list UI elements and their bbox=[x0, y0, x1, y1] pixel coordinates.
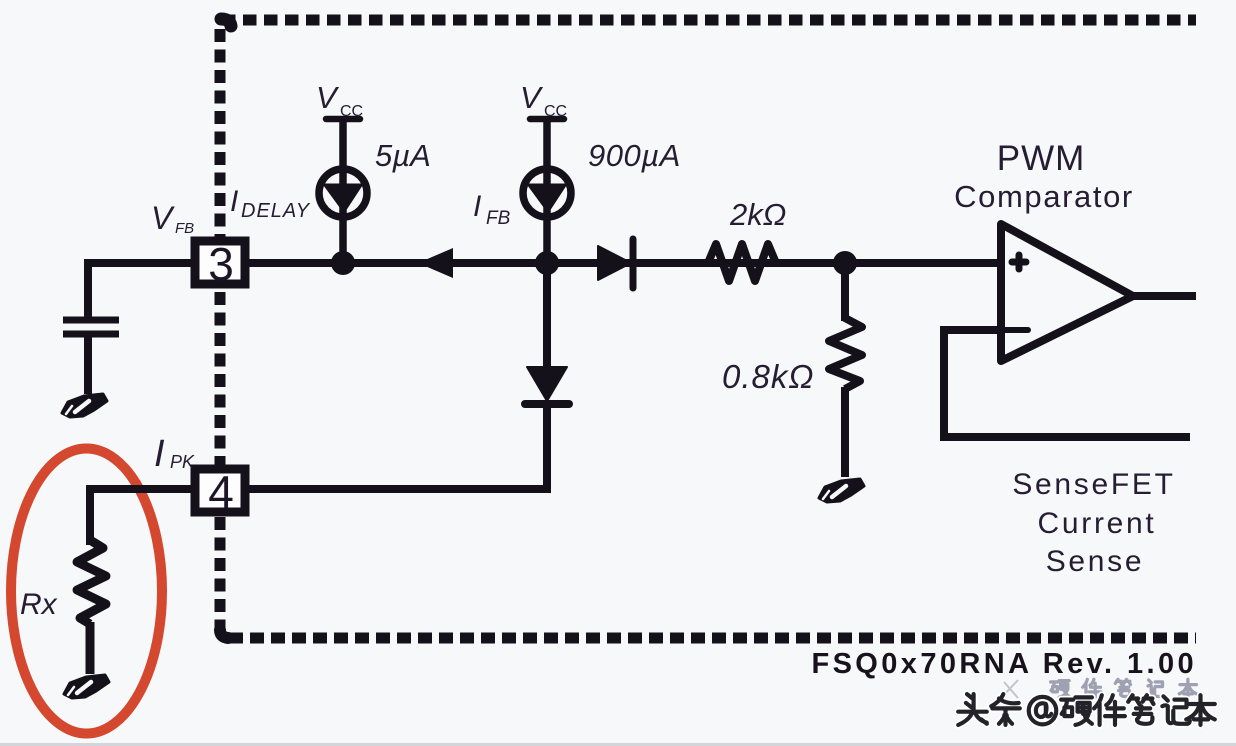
wire: pin3 left lead and down to capacitor bbox=[88, 259, 191, 318]
label I_FB bbox=[473, 190, 511, 229]
svg-text:I: I bbox=[154, 433, 165, 475]
svg-text:SenseFET: SenseFET bbox=[1012, 468, 1175, 501]
junction node at 2k/0.8k bbox=[833, 251, 857, 275]
svg-text:FB: FB bbox=[486, 208, 511, 229]
svg-text:PWM: PWM bbox=[997, 139, 1086, 178]
svg-text:FSQ0x70RNA Rev. 1.00: FSQ0x70RNA Rev. 1.00 bbox=[811, 648, 1197, 680]
svg-text:Comparator: Comparator bbox=[954, 179, 1134, 214]
bottom edge streak bbox=[0, 743, 1236, 746]
svg-text:PK: PK bbox=[170, 452, 195, 472]
svg-text:CC: CC bbox=[544, 103, 567, 120]
svg-text:Rx: Rx bbox=[20, 588, 58, 621]
svg-text:FB: FB bbox=[175, 220, 194, 237]
svg-text:V: V bbox=[151, 200, 175, 236]
label V_FB bbox=[151, 200, 194, 237]
diode D2 (down) to pin4 net bbox=[525, 367, 569, 404]
resistor 0.8k bbox=[829, 315, 862, 389]
label Vcc 1 bbox=[316, 80, 363, 120]
svg-text:Current: Current bbox=[1038, 507, 1157, 540]
label SenseFET Current Sense bbox=[1012, 468, 1175, 578]
current source I_FB 900uA bbox=[523, 169, 571, 217]
junction node at I_DELAY bbox=[331, 251, 355, 275]
watermark headline 头条 @硬件笔记本 dark strokes bbox=[958, 694, 1215, 725]
label Vcc 2 bbox=[520, 80, 567, 120]
wire: pin4 left lead and down to Rx bbox=[90, 485, 195, 545]
arrow on rail pointing left bbox=[418, 248, 453, 278]
current source I_DELAY 5uA bbox=[319, 169, 367, 217]
junction node at I_FB bbox=[535, 251, 559, 275]
wire: junction down to 0.8k bbox=[841, 263, 849, 321]
IC boundary dashed left edge bbox=[215, 29, 226, 632]
svg-text:0.8kΩ: 0.8kΩ bbox=[722, 358, 814, 395]
PWM comparator triangle U1 bbox=[1001, 224, 1133, 361]
svg-text:4: 4 bbox=[208, 466, 234, 518]
svg-text:5µA: 5µA bbox=[375, 138, 431, 173]
label I_PK bbox=[154, 433, 195, 475]
Vcc symbol for I_DELAY bbox=[326, 119, 360, 259]
wire: Rx down to ground bbox=[86, 622, 95, 674]
svg-text:900µA: 900µA bbox=[588, 138, 681, 173]
watermark ghost 硬件笔记本 bbox=[1002, 679, 1196, 698]
svg-text:DELAY: DELAY bbox=[241, 200, 311, 222]
ground (Rx) bbox=[64, 675, 109, 698]
red highlight ellipse around Rx bbox=[11, 449, 162, 734]
wire: comparator minus input feedback bbox=[944, 330, 1190, 437]
label I_DELAY bbox=[230, 185, 311, 222]
IC boundary dashed bottom edge bbox=[229, 633, 1196, 644]
pin 3 box bbox=[195, 238, 245, 290]
resistor 2k bbox=[700, 244, 784, 281]
IC boundary top-left corner bbox=[221, 19, 231, 26]
wire: 0.8k down to ground bbox=[841, 387, 849, 477]
IC boundary dashed top edge bbox=[222, 15, 1196, 26]
svg-text:2kΩ: 2kΩ bbox=[729, 197, 786, 232]
wire: I_FB junction down to diode bbox=[543, 263, 551, 368]
Vcc symbol for I_FB bbox=[530, 119, 564, 259]
svg-text:V: V bbox=[316, 80, 340, 115]
ground (0.8k) bbox=[819, 479, 864, 502]
resistor Rx bbox=[77, 540, 106, 624]
svg-text:CC: CC bbox=[340, 103, 363, 120]
svg-text:3: 3 bbox=[208, 238, 234, 290]
svg-text:I: I bbox=[230, 185, 238, 218]
wire: pin3 to comparator plus input (feedback rail) bbox=[245, 259, 1001, 267]
svg-text:V: V bbox=[520, 80, 544, 115]
wire: comparator output bbox=[1131, 292, 1196, 300]
capacitor bbox=[63, 320, 119, 394]
svg-text:Sense: Sense bbox=[1046, 545, 1145, 578]
watermark headline 头条 @硬件笔记本 white halo bbox=[958, 694, 1215, 725]
series diode D1 on rail bbox=[598, 239, 633, 288]
svg-text:I: I bbox=[473, 190, 481, 223]
wire: diode down, corner left to pin4 bbox=[241, 404, 551, 489]
pin 4 box bbox=[195, 466, 245, 518]
ground (capacitor) bbox=[62, 394, 107, 417]
IC boundary bottom-left corner bbox=[220, 630, 228, 638]
